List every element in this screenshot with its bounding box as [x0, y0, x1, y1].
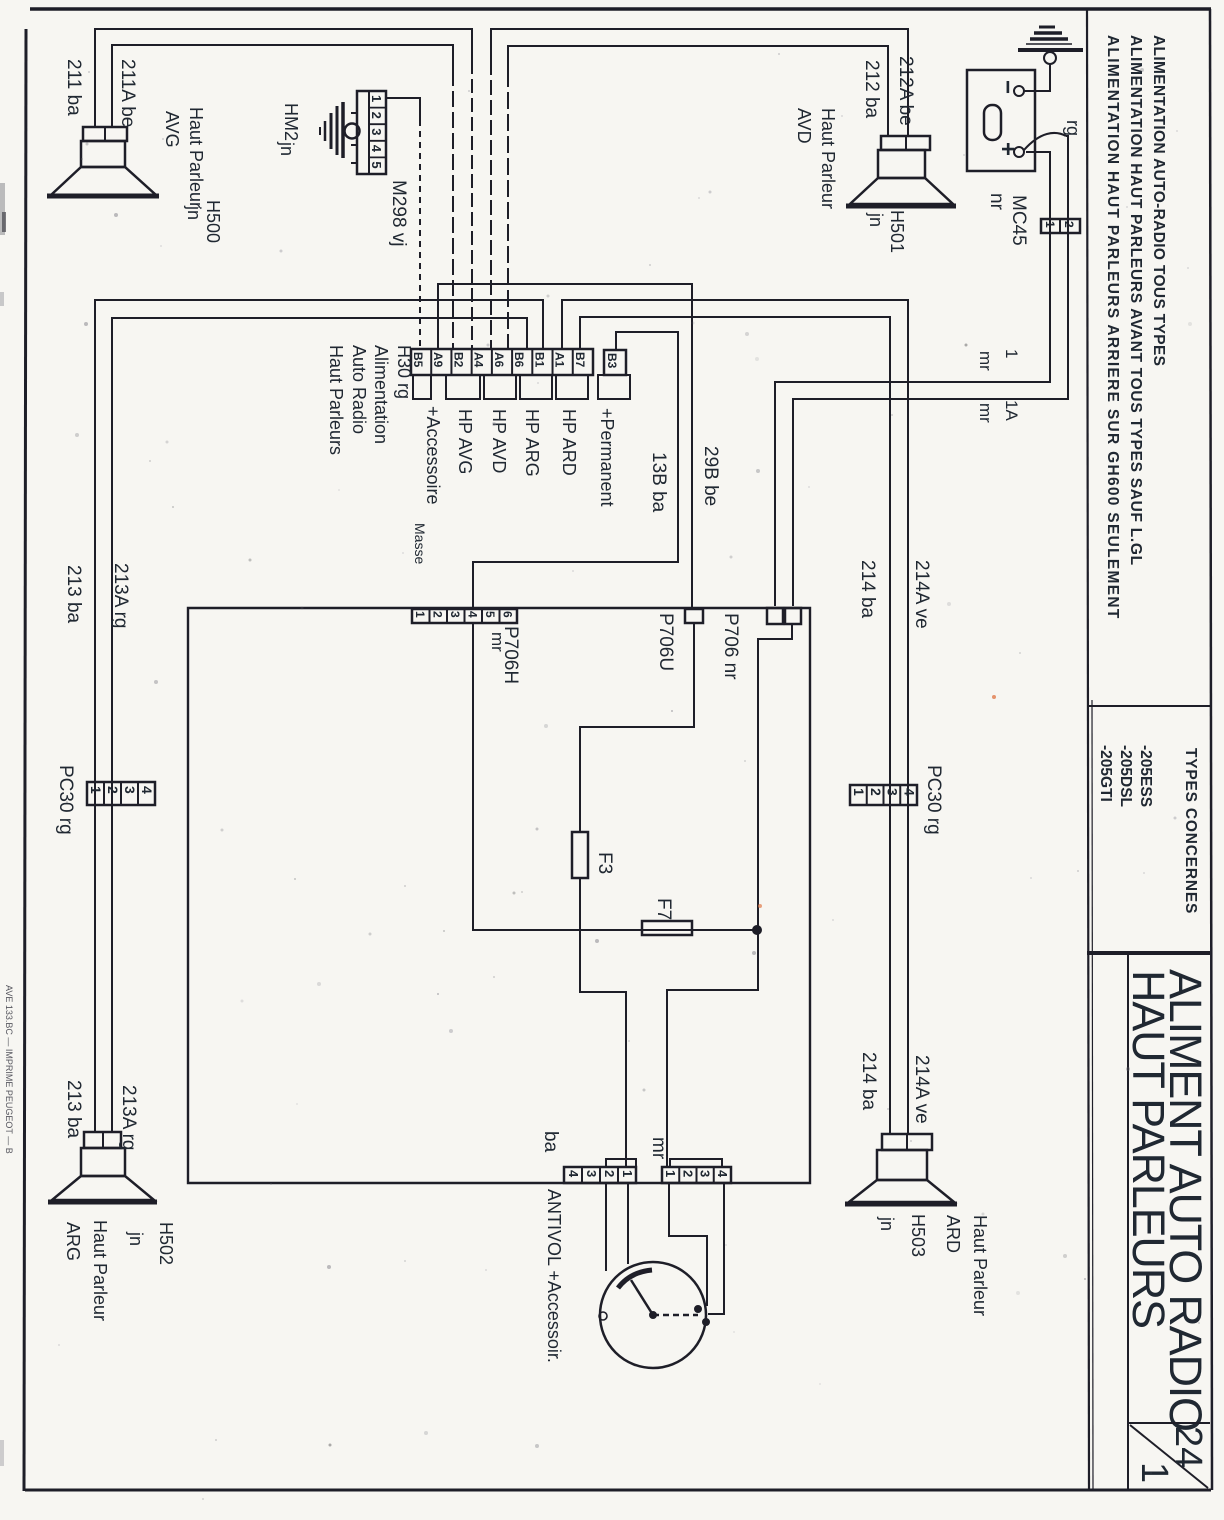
svg-text:MC45: MC45: [1008, 195, 1029, 246]
svg-text:H502: H502: [156, 1222, 176, 1265]
svg-text:4: 4: [139, 786, 155, 794]
wire 1A mr (battery feed 2): [793, 136, 1068, 606]
svg-text:4: 4: [566, 1170, 581, 1178]
svg-text:A9: A9: [431, 352, 445, 368]
svg-text:A6: A6: [492, 352, 506, 368]
svg-text:F3: F3: [594, 852, 615, 874]
label 213 ba (upper): [63, 565, 84, 624]
label PC30 rg (left): [55, 765, 76, 835]
svg-text:B1: B1: [532, 352, 546, 368]
radio pin B3: [604, 350, 626, 375]
svg-text:Haut Parleurs: Haut Parleurs: [326, 345, 346, 455]
wire 1 mr (battery feed): [775, 152, 1050, 606]
fuse 1-2 on battery feed: [1041, 219, 1080, 233]
note line 1: [1150, 35, 1167, 366]
label 29B be: [700, 446, 721, 506]
label H501 jn: [866, 210, 907, 253]
svg-text:mr: mr: [976, 351, 995, 371]
harness rectangle: [188, 608, 810, 1183]
label 211 ba: [63, 59, 84, 116]
svg-text:214A ve: 214A ve: [911, 1055, 932, 1124]
speaker H502 (Haut Parleur ARG): [48, 1132, 157, 1202]
svg-text:1A: 1A: [1002, 400, 1021, 421]
wire B3 to P706H pin4 (13B ba): [473, 332, 678, 609]
svg-text:ALIMENTATION HAUT PARLEURS ARR: ALIMENTATION HAUT PARLEURS ARRIERE SUR G…: [1104, 35, 1121, 620]
svg-text:B6: B6: [512, 352, 526, 368]
svg-text:B2: B2: [451, 352, 465, 368]
label 1 mr: [976, 349, 1021, 371]
svg-text:PC30 rg: PC30 rg: [55, 765, 76, 835]
svg-text:5: 5: [483, 611, 497, 618]
label 212 ba: [861, 60, 882, 119]
svg-text:ANTIVOL +Accessoir.: ANTIVOL +Accessoir.: [544, 1189, 564, 1363]
title block divider: [1087, 951, 1210, 955]
svg-text:4: 4: [466, 611, 480, 618]
connector P706 (2-pin): [767, 608, 801, 624]
label 213A rg (upper): [110, 563, 131, 629]
svg-text:1: 1: [1002, 349, 1021, 358]
svg-text:3: 3: [369, 128, 384, 135]
svg-text:4: 4: [901, 788, 917, 796]
svg-text:mr: mr: [488, 632, 507, 652]
label H30 rg Alimentation Auto Radio Haut Parleurs: [326, 345, 414, 455]
svg-text:mr: mr: [648, 1137, 669, 1160]
label ba: [540, 1131, 561, 1153]
junction node: [753, 926, 762, 935]
svg-text:HP ARG: HP ARG: [522, 409, 542, 477]
svg-text:TYPES CONCERNES: TYPES CONCERNES: [1182, 748, 1199, 914]
label 214A ve (lower): [911, 1055, 932, 1124]
connector M298: [351, 91, 386, 174]
label MC45 nr: [986, 193, 1029, 246]
antivol lock symbol (circle): [599, 1262, 710, 1368]
label 214 ba (lower): [858, 1052, 879, 1111]
svg-text:1: 1: [620, 1170, 635, 1177]
svg-text:P706U: P706U: [655, 613, 676, 671]
svg-text:3: 3: [584, 1170, 599, 1177]
label +Accessoire Masse: [412, 406, 443, 564]
svg-text:ARG: ARG: [63, 1222, 83, 1261]
svg-text:nr: nr: [986, 193, 1007, 211]
svg-text:HP ARD: HP ARD: [559, 409, 579, 476]
label 212A be: [895, 56, 916, 126]
wire 212 ba (H501 to B6): [508, 46, 888, 349]
svg-text:213A rg: 213A rg: [118, 1085, 139, 1151]
label 211A be: [117, 59, 138, 127]
svg-text:-205ESS: -205ESS: [1137, 745, 1154, 807]
svg-text:A4: A4: [472, 352, 486, 368]
svg-text:+Permanent: +Permanent: [597, 408, 617, 507]
svg-text:1: 1: [663, 1170, 678, 1177]
svg-text:2: 2: [680, 1170, 695, 1177]
radio connector housings: [413, 375, 630, 399]
svg-text:+Accessoire: +Accessoire: [423, 406, 443, 505]
svg-text:212A be: 212A be: [895, 56, 916, 126]
svg-text:Haut Parleur: Haut Parleur: [818, 108, 838, 209]
scan margin text: [4, 985, 14, 1154]
svg-text:HP AVD: HP AVD: [489, 409, 509, 473]
svg-text:Haut Parleur: Haut Parleur: [970, 1215, 990, 1316]
wire battery minus to ground: [1024, 64, 1050, 91]
svg-text:+: +: [994, 142, 1021, 156]
label HP AVD: [489, 409, 509, 473]
svg-text:ba: ba: [540, 1131, 561, 1153]
svg-text:H501: H501: [887, 210, 907, 253]
label Haut Parleur ARG: [63, 1220, 110, 1321]
wire 211A be (H500 to B2): [112, 45, 453, 349]
label 213 ba (lower): [63, 1080, 84, 1139]
scan smudges: [0, 183, 996, 1466]
svg-text:213A rg: 213A rg: [110, 563, 131, 629]
svg-text:213 ba: 213 ba: [63, 1080, 84, 1139]
svg-text:3: 3: [698, 1170, 713, 1177]
wire P706U to F3: [580, 623, 694, 832]
svg-text:1: 1: [88, 786, 104, 794]
svg-text:5: 5: [369, 161, 384, 168]
svg-text:jn: jn: [126, 1231, 146, 1246]
wire 213 ba (B1 to H502): [95, 300, 543, 1132]
svg-text:jn: jn: [184, 205, 204, 220]
label P706H mr: [488, 626, 521, 684]
svg-text:mr: mr: [976, 403, 995, 423]
antivol connector strip 1234: [662, 1159, 731, 1183]
label ANTIVOL +Accessoir: [544, 1189, 564, 1363]
label 1A mr: [976, 400, 1021, 423]
svg-text:M298 vj: M298 vj: [388, 180, 409, 247]
svg-text:2: 2: [105, 786, 121, 794]
svg-text:AVE 133.BC — IMPRIME PEUGEOT: AVE 133.BC — IMPRIME PEUGEOT — B: [4, 985, 14, 1154]
svg-text:H500: H500: [203, 200, 223, 243]
svg-text:H503: H503: [908, 1214, 928, 1257]
svg-text:HP AVG: HP AVG: [455, 409, 475, 474]
svg-text:3: 3: [122, 786, 138, 794]
svg-text:Alimentation: Alimentation: [371, 345, 391, 444]
label PC30 rg (right): [923, 765, 944, 835]
svg-text:3: 3: [448, 611, 462, 618]
label F3: [594, 852, 615, 874]
svg-text:2: 2: [868, 788, 884, 796]
sheet number box 24/1: [1128, 1423, 1210, 1488]
svg-text:H30 rg: H30 rg: [394, 345, 414, 399]
svg-text:PC30 rg: PC30 rg: [923, 765, 944, 835]
svg-text:6: 6: [501, 611, 515, 618]
svg-text:jn: jn: [277, 141, 297, 156]
svg-text:Masse: Masse: [412, 523, 428, 564]
wire P706 pin2 to junction: [667, 624, 792, 1167]
note line 2: [1127, 35, 1144, 566]
title block inner line: [1127, 953, 1129, 1490]
label M298 vj: [388, 180, 409, 247]
svg-text:ARD: ARD: [943, 1215, 963, 1253]
svg-text:1: 1: [851, 788, 867, 796]
title HAUT PARLEURS: [1123, 970, 1174, 1328]
svg-text:jn: jn: [877, 1216, 897, 1231]
label HP ARD: [559, 409, 579, 476]
connector PC30 (right): [850, 785, 917, 805]
connector P706U: [685, 609, 703, 623]
svg-text:2: 2: [369, 112, 384, 119]
svg-text:Haut Parleur: Haut Parleur: [186, 107, 206, 208]
antivol duct: [606, 1183, 628, 1271]
svg-text:rg: rg: [1063, 120, 1083, 136]
svg-text:212 ba: 212 ba: [861, 60, 882, 119]
speaker H501 (Haut Parleur AVD): [846, 136, 956, 206]
label 213A rg (lower): [118, 1085, 139, 1151]
wire 214 ba (B7 to H503): [580, 317, 890, 1134]
note line 3: [1104, 35, 1121, 620]
svg-text:ALIMENTATION HAUT PARLEURS AVA: ALIMENTATION HAUT PARLEURS AVANT TOUS TY…: [1127, 35, 1144, 566]
svg-text:F7: F7: [653, 898, 674, 920]
speaker H503 (Haut Parleur ARD): [845, 1134, 957, 1204]
svg-text:jn: jn: [866, 212, 886, 227]
svg-text:214A ve: 214A ve: [911, 560, 932, 629]
speaker H500 (Haut Parleur AVG): [47, 127, 159, 196]
svg-text:P706 nr: P706 nr: [720, 613, 741, 680]
wire F3 to antivol strip1: [580, 878, 626, 1167]
ground at battery: [1018, 27, 1083, 64]
svg-text:ALIMENTATION AUTO-RADIO TOUS T: ALIMENTATION AUTO-RADIO TOUS TYPES: [1150, 35, 1167, 366]
label 13B ba: [648, 452, 669, 513]
wire P706H pin4 to junction (accessory): [473, 623, 757, 930]
svg-text:29B be: 29B be: [700, 446, 721, 506]
svg-text:3: 3: [885, 788, 901, 796]
svg-text:213 ba: 213 ba: [63, 565, 84, 624]
wire 212A be (H501 to A6): [491, 29, 908, 349]
antivol wires right: [669, 1183, 724, 1314]
label 214 ba (upper): [857, 560, 878, 619]
svg-text:AVD: AVD: [794, 108, 814, 144]
svg-text:-205DSL: -205DSL: [1117, 745, 1134, 807]
title ALIMENT AUTO RADIO: [1160, 969, 1211, 1431]
radio connector pin row: [411, 349, 593, 375]
ground HM2: [320, 102, 360, 158]
connector PC30 (left): [87, 782, 155, 805]
wire 214A ve (A1 to H503): [562, 300, 908, 1134]
label P706U: [655, 613, 676, 671]
svg-text:HAUT PARLEURS: HAUT PARLEURS: [1123, 970, 1174, 1328]
svg-text:214 ba: 214 ba: [857, 560, 878, 619]
svg-text:4: 4: [715, 1170, 730, 1178]
svg-text:B3: B3: [605, 353, 619, 369]
label 214A ve (upper): [911, 560, 932, 629]
label Haut Parleur AVG: [162, 107, 206, 208]
svg-text:4: 4: [369, 145, 384, 153]
wire M298 to radio pin B5: [386, 98, 420, 349]
svg-text:HM2: HM2: [281, 103, 301, 141]
label Haut Parleur ARD: [943, 1215, 990, 1316]
wire A9 to P706U (29B be): [438, 284, 692, 609]
connector P706H: [412, 609, 517, 623]
battery MC45: [967, 70, 1035, 171]
fuse F3: [572, 832, 588, 878]
label rg: [1063, 120, 1083, 136]
svg-text:13B ba: 13B ba: [648, 452, 669, 513]
fuse F7: [642, 921, 692, 935]
svg-text:1: 1: [413, 611, 427, 618]
antivol connector strip 4321: [564, 1159, 636, 1183]
label F7: [653, 898, 674, 920]
label mr: [648, 1137, 669, 1160]
svg-text:Auto Radio: Auto Radio: [349, 345, 369, 434]
svg-text:1: 1: [369, 95, 384, 102]
label H503 jn: [877, 1214, 928, 1257]
label HP AVG: [455, 409, 475, 474]
svg-text:B7: B7: [573, 352, 587, 368]
label HP ARG: [522, 409, 542, 477]
label H500 jn: [184, 200, 223, 243]
svg-text:211A be: 211A be: [117, 59, 138, 127]
label P706 nr: [720, 613, 741, 680]
svg-text:-205GTI: -205GTI: [1097, 745, 1114, 802]
types concernes divider: [1089, 705, 1210, 707]
svg-text:AVG: AVG: [162, 111, 182, 148]
svg-text:2: 2: [602, 1170, 617, 1177]
wire 213A rg (B6 to H502): [112, 318, 527, 1132]
wire battery plus pigtail: [1024, 133, 1066, 150]
wire 211 ba (H500 to A4): [95, 29, 472, 349]
svg-text:2: 2: [431, 611, 445, 618]
svg-text:214 ba: 214 ba: [858, 1052, 879, 1111]
label H502 jn: [126, 1222, 176, 1265]
svg-text:Haut Parleur: Haut Parleur: [90, 1220, 110, 1321]
svg-text:211 ba: 211 ba: [63, 59, 84, 116]
svg-text:A1: A1: [553, 352, 567, 368]
svg-text:1: 1: [1133, 1462, 1175, 1483]
label Haut Parleur AVD: [794, 108, 838, 209]
label HM2 jn: [277, 103, 301, 156]
types concernes block: [1097, 745, 1199, 914]
label +Permanent: [597, 408, 617, 507]
